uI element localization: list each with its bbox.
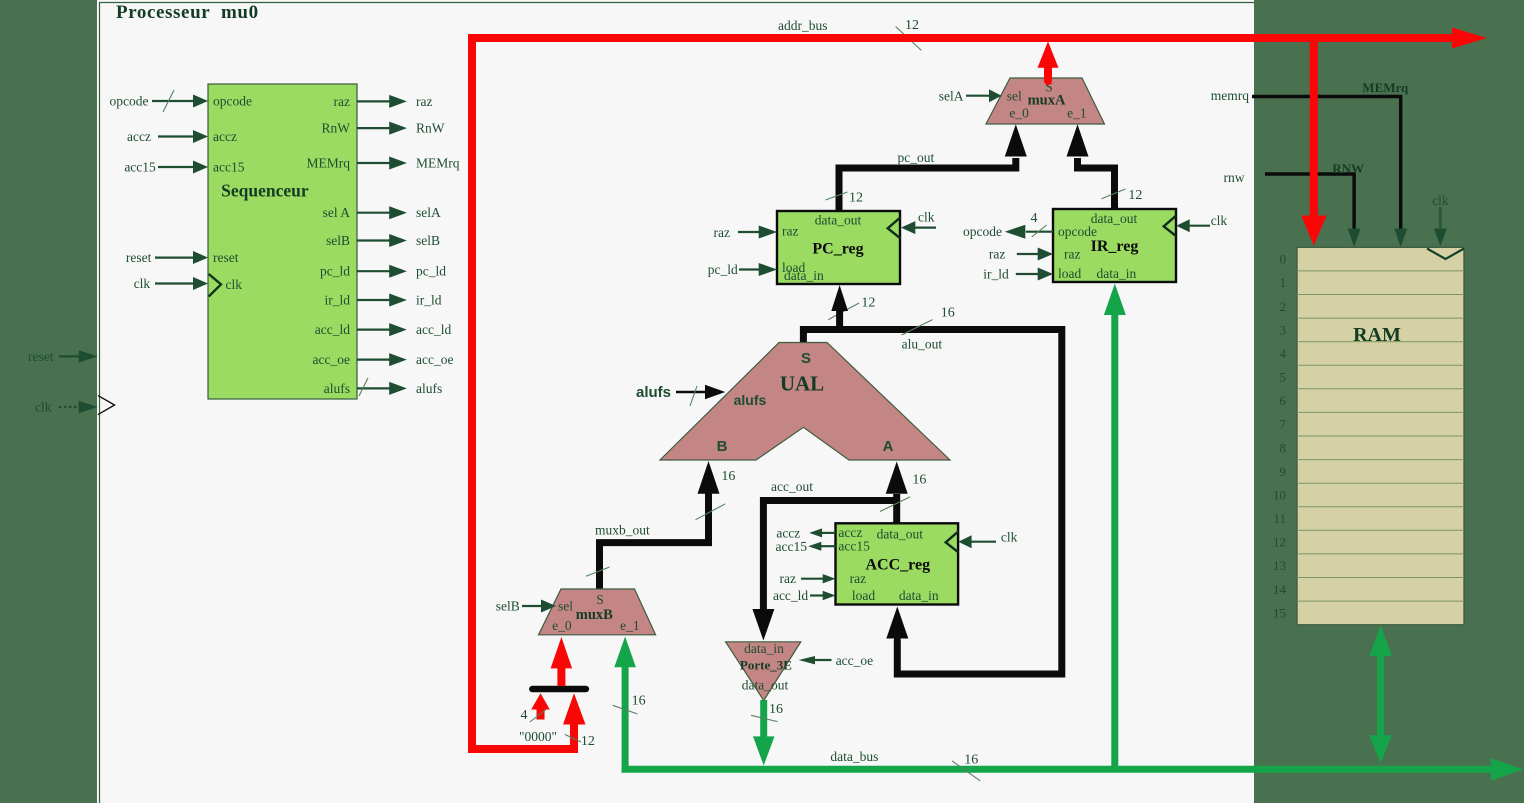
svg-text:acc15: acc15: [776, 539, 808, 554]
svg-text:16: 16: [769, 702, 783, 717]
green wire data_bus to muxB e_1: [622, 667, 629, 772]
svg-text:opcode: opcode: [110, 94, 149, 109]
tristate gate Porte_3E: [726, 642, 801, 701]
red arrow 12-bit up to joiner bar: [570, 725, 578, 754]
svg-text:RNW: RNW: [1332, 161, 1364, 176]
svg-text:16: 16: [721, 469, 735, 484]
svg-text:raz: raz: [714, 225, 730, 240]
wire clk (dashed): [59, 406, 80, 408]
svg-text:PC_reg: PC_reg: [812, 241, 863, 258]
svg-text:alufs: alufs: [416, 381, 442, 396]
svg-text:pc_ld: pc_ld: [708, 262, 738, 277]
RAM address labels 0-15: [1273, 252, 1287, 621]
svg-text:B: B: [717, 438, 728, 455]
clk edge chevron at frame: [98, 396, 115, 415]
svg-text:16: 16: [632, 694, 646, 709]
svg-text:RAM: RAM: [1353, 324, 1401, 346]
svg-text:pc_out: pc_out: [898, 150, 935, 165]
svg-text:alu_out: alu_out: [902, 337, 943, 352]
svg-text:raz: raz: [334, 94, 350, 109]
RAM U_RAM: [1297, 247, 1464, 625]
svg-text:ir_ld: ir_ld: [416, 293, 442, 308]
wire acc_out (ACC data_out up to UAL A and left-down to Porte_3E): [893, 494, 900, 524]
wire pc_out (PC_reg data_out to muxA e_0): [839, 158, 1016, 212]
svg-text:acc15: acc15: [124, 160, 156, 175]
svg-text:data_in: data_in: [784, 268, 824, 283]
green wire data_bus to IR_reg data_in: [1111, 315, 1118, 769]
mux U_muxB: [539, 589, 656, 635]
svg-text:raz: raz: [1064, 247, 1080, 262]
green wire Porte_3E data_out down to data_bus: [760, 700, 767, 737]
svg-text:acc_ld: acc_ld: [416, 322, 451, 337]
svg-text:data_in: data_in: [899, 588, 939, 603]
red bus horizontal top: [468, 34, 1453, 42]
svg-text:acc_out: acc_out: [771, 479, 813, 494]
svg-text:reset: reset: [126, 250, 152, 265]
red arrow constant "0000" up to joiner bar: [537, 709, 545, 720]
svg-text:opcode: opcode: [963, 224, 1002, 239]
svg-text:clk: clk: [1001, 530, 1018, 545]
svg-text:muxb_out: muxb_out: [595, 523, 650, 538]
svg-text:9: 9: [1280, 464, 1287, 479]
svg-text:data_out: data_out: [815, 213, 862, 228]
bus joiner bar: [532, 686, 586, 693]
svg-text:Processeur mu0: Processeur mu0: [116, 2, 259, 23]
red arrow addr_bus down to RAM (over black wires): [1310, 38, 1318, 216]
svg-text:clk: clk: [918, 210, 935, 225]
svg-text:accz: accz: [213, 129, 237, 144]
svg-text:Porte_3E: Porte_3E: [740, 658, 792, 673]
svg-text:selA: selA: [416, 205, 441, 220]
svg-text:12: 12: [905, 18, 919, 33]
svg-text:ACC_reg: ACC_reg: [866, 557, 931, 574]
svg-text:acc_oe: acc_oe: [313, 352, 350, 367]
svg-text:selB: selB: [416, 233, 440, 248]
right dark panel: [1254, 0, 1524, 803]
svg-text:MEMrq: MEMrq: [307, 156, 351, 171]
svg-text:6: 6: [1280, 393, 1287, 408]
red arrow muxA S to addr_bus: [1044, 66, 1052, 81]
svg-text:alufs: alufs: [324, 381, 350, 396]
svg-text:selA: selA: [939, 88, 964, 103]
svg-text:S: S: [801, 350, 811, 367]
RAM clock chevron: [1427, 249, 1464, 260]
svg-text:raz: raz: [416, 94, 432, 109]
svg-text:data_out: data_out: [742, 678, 789, 693]
wire muxb_out (muxB S to UAL B): [600, 494, 709, 592]
UAL (ALU) U_UAL: [660, 343, 950, 461]
svg-text:e_1: e_1: [1067, 106, 1087, 121]
svg-text:clk: clk: [134, 276, 151, 291]
svg-text:e_0: e_0: [552, 618, 572, 633]
wire alu_out (UAL S up, right, down, to ACC data_in): [828, 303, 859, 320]
svg-text:16: 16: [912, 472, 926, 487]
svg-text:8: 8: [1280, 440, 1287, 455]
svg-text:10: 10: [1273, 488, 1286, 503]
svg-text:addr_bus: addr_bus: [778, 18, 828, 33]
svg-text:UAL: UAL: [780, 372, 824, 396]
svg-text:data_out: data_out: [1091, 211, 1138, 226]
svg-text:clk: clk: [226, 277, 243, 292]
svg-text:e_0: e_0: [1009, 106, 1029, 121]
svg-text:data_out: data_out: [873, 526, 923, 541]
sequencer U_SEQ: [208, 84, 357, 399]
svg-text:Sequenceur: Sequenceur: [221, 181, 309, 201]
svg-text:raz: raz: [989, 247, 1005, 262]
red bus spine (vertical left): [468, 34, 476, 749]
svg-text:16: 16: [941, 306, 955, 321]
svg-text:RnW: RnW: [322, 121, 351, 136]
svg-text:load: load: [852, 588, 875, 603]
svg-text:reset: reset: [28, 349, 54, 364]
svg-text:16: 16: [964, 753, 978, 768]
svg-text:4: 4: [1031, 211, 1038, 226]
svg-text:1: 1: [1280, 275, 1287, 290]
svg-text:muxB: muxB: [576, 607, 613, 623]
green double arrow RAM to data_bus: [1377, 655, 1384, 736]
svg-text:12: 12: [1273, 535, 1286, 550]
svg-text:12: 12: [861, 296, 875, 311]
red arrow joiner bar to muxB e_0: [557, 668, 565, 686]
svg-text:opcode: opcode: [213, 94, 252, 109]
wire to PC data_in: [836, 311, 843, 330]
svg-text:0: 0: [1280, 252, 1287, 267]
svg-text:acc_oe: acc_oe: [836, 653, 873, 668]
svg-text:sel A: sel A: [323, 205, 351, 220]
register ACC_reg: [836, 523, 959, 604]
svg-text:clk: clk: [35, 400, 52, 415]
svg-text:clk: clk: [1211, 213, 1228, 228]
svg-text:memrq: memrq: [1211, 88, 1249, 103]
svg-text:load: load: [1058, 266, 1081, 281]
wire reset: [59, 355, 80, 357]
svg-text:acc15: acc15: [838, 539, 870, 554]
svg-text:pc_ld: pc_ld: [320, 264, 350, 279]
wire ir_out (IR_reg data_out to muxA e_1): [1078, 158, 1115, 210]
svg-text:13: 13: [1273, 558, 1286, 573]
svg-text:alufs: alufs: [636, 384, 671, 401]
svg-text:sel: sel: [558, 599, 573, 614]
register IR_reg: [1053, 209, 1176, 282]
svg-text:MEMrq: MEMrq: [416, 156, 460, 171]
svg-text:raz: raz: [850, 571, 866, 586]
register PC_reg: [777, 211, 900, 284]
svg-text:sel: sel: [1007, 88, 1022, 103]
red arrow addr_bus down to RAM: [1310, 38, 1318, 216]
mux U_muxA: [986, 78, 1105, 124]
svg-text:rnw: rnw: [1224, 170, 1245, 185]
frame border: [100, 3, 1255, 803]
svg-text:selB: selB: [496, 599, 520, 614]
svg-text:ir_ld: ir_ld: [983, 267, 1009, 282]
svg-text:acc15: acc15: [213, 160, 245, 175]
svg-text:e_1: e_1: [620, 618, 640, 633]
green bus data_bus: [622, 766, 1492, 773]
svg-text:12: 12: [849, 191, 863, 206]
svg-text:data_bus: data_bus: [830, 749, 878, 764]
svg-text:IR_reg: IR_reg: [1091, 238, 1139, 255]
red bus bottom segment: [468, 745, 574, 753]
svg-text:2: 2: [1280, 299, 1287, 314]
svg-text:15: 15: [1273, 605, 1286, 620]
svg-text:MEMrq: MEMrq: [1362, 80, 1409, 95]
svg-text:4: 4: [1280, 346, 1287, 361]
svg-text:clk: clk: [1432, 193, 1449, 208]
svg-text:data_in: data_in: [1097, 266, 1137, 281]
svg-text:selB: selB: [326, 233, 350, 248]
left dark panel: [0, 0, 97, 803]
svg-text:muxA: muxA: [1028, 93, 1066, 109]
svg-text:"0000": "0000": [519, 729, 557, 744]
svg-text:7: 7: [1280, 417, 1287, 432]
svg-text:acc_ld: acc_ld: [773, 588, 808, 603]
svg-text:A: A: [883, 438, 894, 455]
svg-text:11: 11: [1273, 511, 1286, 526]
svg-text:3: 3: [1280, 322, 1287, 337]
svg-text:RnW: RnW: [416, 121, 445, 136]
svg-text:acc_ld: acc_ld: [315, 322, 350, 337]
svg-text:reset: reset: [213, 250, 239, 265]
svg-text:5: 5: [1280, 370, 1287, 385]
svg-text:opcode: opcode: [1058, 224, 1097, 239]
svg-text:acc_oe: acc_oe: [416, 352, 453, 367]
svg-text:S: S: [596, 592, 604, 607]
svg-text:accz: accz: [127, 129, 151, 144]
svg-text:raz: raz: [780, 571, 796, 586]
svg-text:12: 12: [1128, 188, 1142, 203]
svg-text:alufs: alufs: [734, 392, 767, 408]
svg-text:data_in: data_in: [744, 641, 784, 656]
red bus arrowhead right: [1452, 28, 1487, 49]
svg-text:pc_ld: pc_ld: [416, 264, 446, 279]
svg-text:14: 14: [1273, 582, 1287, 597]
svg-text:4: 4: [521, 708, 528, 723]
svg-text:raz: raz: [782, 224, 798, 239]
svg-text:12: 12: [581, 734, 595, 749]
svg-text:ir_ld: ir_ld: [325, 293, 351, 308]
